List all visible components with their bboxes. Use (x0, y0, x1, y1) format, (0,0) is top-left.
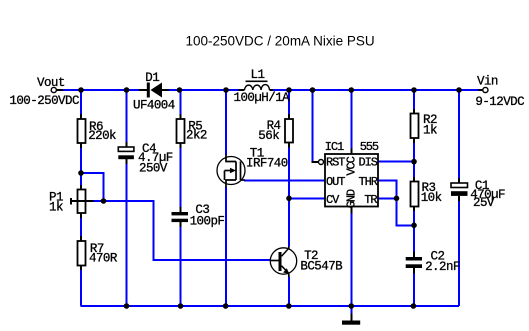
svg-text:100-250VDC: 100-250VDC (9, 94, 79, 108)
svg-text:UF4004: UF4004 (133, 99, 175, 113)
svg-text:DIS: DIS (359, 156, 378, 170)
svg-text:100-250VDC / 20mA Nixie PSU: 100-250VDC / 20mA Nixie PSU (186, 34, 375, 49)
svg-text:100pF: 100pF (190, 215, 225, 229)
svg-text:100µH/1A: 100µH/1A (234, 91, 291, 105)
svg-text:470R: 470R (89, 252, 118, 266)
svg-text:25V: 25V (473, 196, 495, 210)
svg-text:TR: TR (364, 193, 377, 207)
svg-text:GND: GND (345, 189, 359, 208)
svg-text:2k2: 2k2 (186, 129, 207, 143)
svg-text:1k: 1k (423, 124, 437, 138)
svg-text:VCC: VCC (345, 156, 359, 175)
svg-text:56k: 56k (258, 129, 279, 143)
svg-text:555: 555 (360, 140, 379, 154)
svg-text:BC547B: BC547B (300, 260, 343, 274)
svg-text:10k: 10k (421, 191, 442, 205)
svg-text:250V: 250V (139, 162, 168, 176)
svg-text:IRF740: IRF740 (246, 156, 288, 170)
svg-text:Vout: Vout (37, 76, 65, 90)
svg-text:IC1: IC1 (325, 140, 344, 154)
svg-text:THR: THR (359, 175, 378, 189)
svg-text:1k: 1k (49, 201, 63, 215)
svg-text:OUT: OUT (326, 175, 345, 189)
svg-text:CV: CV (326, 193, 340, 207)
svg-text:2.2nF: 2.2nF (425, 260, 460, 274)
svg-text:9-12VDC: 9-12VDC (475, 95, 524, 109)
svg-text:L1: L1 (251, 68, 265, 82)
svg-text:220k: 220k (88, 129, 116, 143)
svg-text:D1: D1 (145, 71, 159, 85)
svg-text:RST: RST (326, 156, 345, 170)
svg-text:Vin: Vin (477, 75, 498, 89)
